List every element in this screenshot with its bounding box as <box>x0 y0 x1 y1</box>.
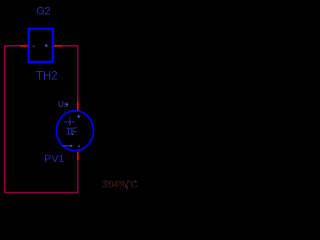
pin 2 lead of TH2 (red) <box>54 45 62 47</box>
pin - lead of PV1 (red) <box>77 152 79 160</box>
pin marker + (top pin of PV1) <box>77 115 80 118</box>
pin 1 lead of TH2 (red) <box>20 45 28 47</box>
pin number 2 of TH2 <box>45 44 48 47</box>
battery PV1 body <box>57 111 94 151</box>
annotation speckles <box>107 181 108 182</box>
annotation slash descender <box>126 186 128 190</box>
wire: rect right pin to circle top (maroon) <box>62 46 78 102</box>
polarity - symbol of PV1 <box>62 145 72 147</box>
svg-text:PV1: PV1 <box>44 153 64 165</box>
thermistor TH2 body <box>29 29 53 62</box>
wire: left vertical + top-left + bottom net (maroon) <box>5 46 78 193</box>
svg-text:TH2: TH2 <box>36 71 58 83</box>
svg-text:11F: 11F <box>66 126 78 137</box>
pin + lead of PV1 (red) <box>77 102 79 110</box>
svg-text:G2: G2 <box>36 6 50 18</box>
polarity + symbol of PV1 (dotted cross) <box>64 117 75 125</box>
pin marker dot (bottom pin of PV1) <box>78 146 79 147</box>
pin number 1 of TH2 <box>33 45 35 47</box>
